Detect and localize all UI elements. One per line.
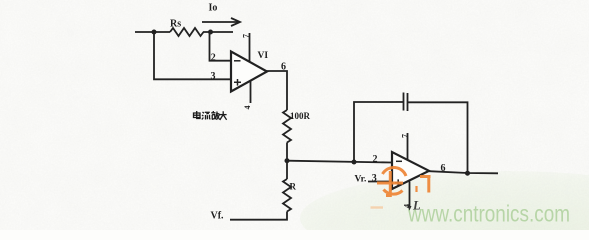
svg-text:7: 7 — [242, 34, 251, 38]
svg-text:L: L — [412, 199, 421, 213]
svg-text:6: 6 — [441, 163, 446, 174]
svg-text:6: 6 — [281, 62, 286, 73]
svg-text:2: 2 — [211, 52, 216, 63]
svg-text:www.cntronics.com: www.cntronics.com — [407, 201, 570, 227]
svg-text:4: 4 — [243, 106, 252, 110]
svg-text:2: 2 — [373, 154, 378, 165]
svg-text:Vf.: Vf. — [211, 211, 225, 222]
svg-text:3: 3 — [211, 71, 216, 82]
svg-text:Vr.: Vr. — [355, 174, 367, 184]
svg-text:3: 3 — [372, 173, 377, 184]
svg-text:Io: Io — [209, 3, 218, 14]
svg-text:4: 4 — [403, 204, 412, 208]
svg-text:VI: VI — [258, 51, 269, 61]
svg-text:7: 7 — [401, 134, 410, 138]
svg-text:Rs: Rs — [170, 19, 181, 30]
svg-text:R: R — [290, 182, 297, 192]
svg-text:100R: 100R — [290, 111, 311, 121]
